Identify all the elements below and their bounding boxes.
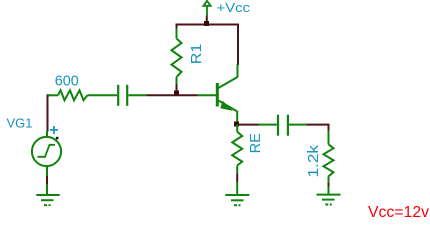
wire: +Vcc stem (lower maroon part)	[206, 16, 208, 25]
pin dot of VG1	[56, 137, 59, 140]
wire: R1 bottom to base junction	[176, 84, 178, 94]
node: base junction dot	[174, 91, 179, 96]
svg-text:1.2k: 1.2k	[305, 144, 322, 177]
top lead	[46, 131, 48, 137]
collector diagonal	[218, 77, 238, 89]
resistor 1.2k (vertical) with leads	[324, 131, 334, 184]
svg-text:+: +	[49, 122, 58, 139]
transistor Q1 (NPN)	[198, 64, 238, 123]
ground (1.2k)	[317, 187, 341, 205]
ground (RE)	[225, 182, 249, 205]
ground (VG1)	[36, 184, 59, 205]
wire: emitter junction to C2	[237, 124, 259, 126]
svg-text:600: 600	[55, 73, 79, 90]
node: emitter junction dot	[234, 122, 239, 127]
wire: VG1 to ground	[46, 176, 48, 184]
emitter lead vertical	[236, 111, 238, 123]
resistor 600 (horizontal) with leads	[48, 90, 118, 100]
resistor R1 (vertical)	[172, 29, 182, 86]
emitter arrowhead	[220, 101, 233, 111]
base lead	[198, 94, 217, 96]
wire: input vertical from corner down to VG1	[48, 95, 51, 131]
wire: C1 to base junction to transistor base lead	[147, 94, 198, 96]
svg-text:VG1: VG1	[7, 116, 33, 131]
bottom lead	[46, 166, 48, 176]
node: +Vcc junction dot	[204, 21, 209, 26]
body circle	[32, 137, 61, 166]
wire: C2 to 1.2k corner	[307, 125, 329, 132]
wire: RE to ground	[236, 174, 238, 183]
svg-text:+Vcc: +Vcc	[217, 0, 251, 15]
waveform symbol	[38, 145, 56, 157]
svg-text:RE: RE	[247, 133, 264, 153]
voltage source VG1	[32, 131, 61, 176]
power symbol +Vcc arrow	[203, 1, 210, 17]
svg-text:Vcc=12v: Vcc=12v	[368, 204, 429, 221]
capacitor C1 (input coupling)	[118, 85, 146, 106]
wire: top Vcc rail from R1 top corner to collector corner	[177, 25, 239, 66]
wire: collector to top rail	[237, 25, 239, 65]
svg-text:R1: R1	[188, 44, 205, 65]
base bar	[216, 83, 219, 107]
emitter diagonal	[218, 100, 237, 111]
capacitor C2 (output coupling) with leads	[259, 115, 307, 136]
resistor RE (vertical) with leads	[232, 125, 242, 174]
wire: 1.2k to ground	[328, 183, 330, 187]
collector lead vertical	[237, 64, 239, 78]
